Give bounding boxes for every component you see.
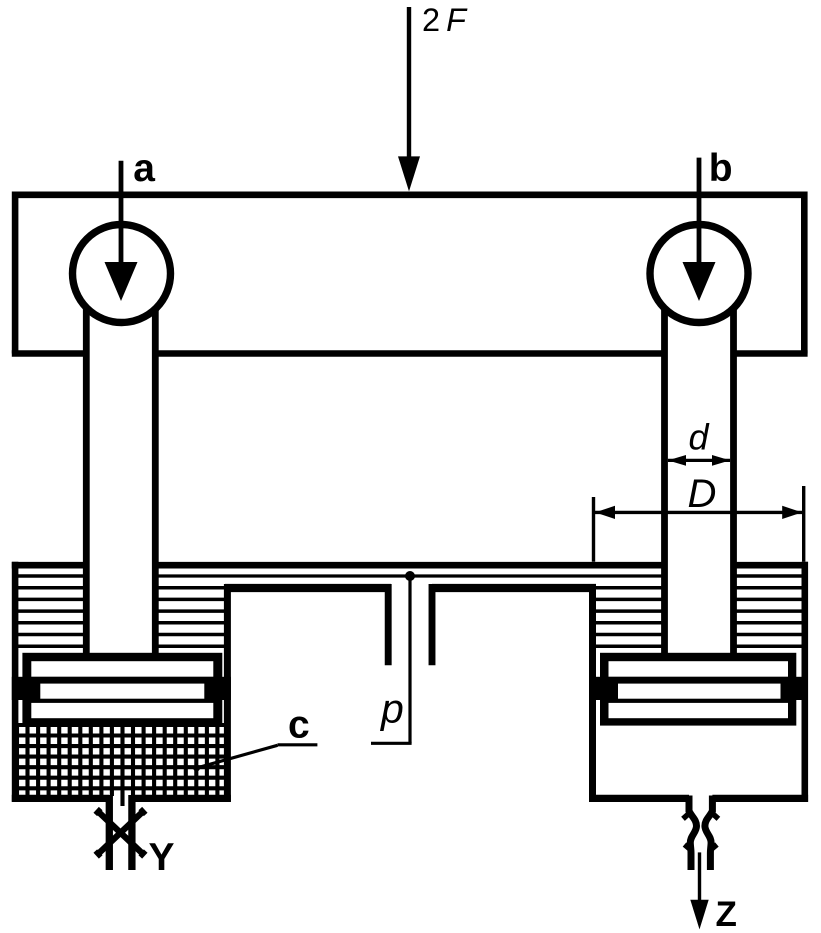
cylinder left bottom edge [12,795,231,802]
channel lower wall right hook [432,584,596,665]
connecting channel line [155,574,664,577]
crosshatch block c [14,723,229,806]
hatch wall right-inner [593,588,665,647]
svg-text:a: a [133,147,155,190]
dimension D [594,486,804,562]
svg-text:b: b [709,147,733,190]
channel lower wall left hook [225,584,391,665]
junction node [405,571,415,581]
beam bottom edge segments [12,350,808,357]
ball joint b [650,225,748,323]
force arrow a [105,161,138,301]
hatch wall left-outer [15,576,86,646]
force arrow Z [690,852,708,929]
piston rod right [665,280,734,656]
piston left [12,653,231,726]
svg-text:d: d [689,417,710,458]
dimension d [668,455,730,466]
hatch wall left-inner [155,588,227,647]
drain pipe left [109,795,132,870]
piston right [589,653,808,726]
svg-text:Z: Z [716,895,737,933]
beam [15,195,804,354]
shut-off valve Y cross [95,809,145,857]
leader dot c [193,765,200,772]
cylinder right wall inner [589,584,596,802]
piston rod left [86,280,155,656]
cylinder left wall inner [224,584,231,802]
force arrow 2F [398,7,420,191]
svg-text:Y: Y [149,836,175,879]
cylinder left wall outer [12,562,19,802]
leader line c [197,745,318,768]
hatch wall right-outer [734,576,805,646]
pressure tap line p [371,576,412,743]
cylinder top edge [12,562,808,569]
break symbol pipe right [683,796,718,871]
svg-text:D: D [688,472,717,516]
cylinder right wall outer [801,562,808,802]
ball joint a [73,225,171,323]
svg-text:c: c [288,704,310,747]
force arrow b [683,158,716,301]
cylinder right bottom edge [589,795,808,802]
svg-text:p: p [379,685,404,731]
